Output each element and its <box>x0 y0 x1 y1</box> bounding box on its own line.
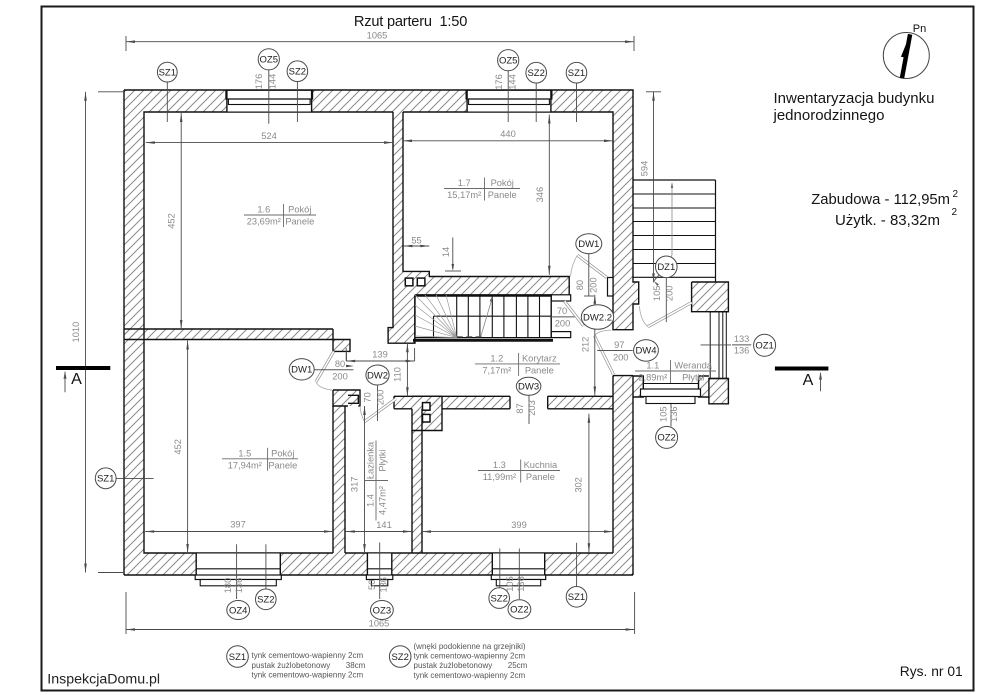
svg-text:Inwentaryzacja budynku: Inwentaryzacja budynku <box>774 90 935 107</box>
legend SZ1 <box>227 646 249 668</box>
svg-text:Panele: Panele <box>285 217 314 227</box>
wall fill: divider 1.4/1.3 <box>412 409 422 553</box>
dim 524 room 1.6 <box>146 142 393 144</box>
svg-text:jednorodzinnego: jednorodzinnego <box>773 107 885 124</box>
wall fill: kitchen chimney block <box>412 396 442 430</box>
svg-text:141: 141 <box>376 520 392 530</box>
legend SZ2 <box>389 646 411 668</box>
dim 141 bathroom <box>346 531 412 533</box>
wall outline: partition 1.6/1.7 and stair band <box>392 112 394 296</box>
section mark A left <box>56 366 110 370</box>
window OZ2 (bottom wall) <box>492 553 544 575</box>
room 1.3 label <box>478 470 560 472</box>
svg-text:DW2: DW2 <box>367 370 388 381</box>
dim 139 corridor nook <box>345 348 347 361</box>
window OZ5 left (top wall) <box>227 90 312 112</box>
label OZ3 bottom with 50/136 <box>379 543 381 600</box>
label DZ1 with 105/200 <box>665 278 667 322</box>
wall outline: block above bathroom <box>333 390 360 406</box>
svg-text:Zabudowa - 112,95m: Zabudowa - 112,95m <box>811 192 950 208</box>
svg-text:139: 139 <box>372 350 388 360</box>
svg-text:A: A <box>71 371 82 388</box>
svg-text:SZ1: SZ1 <box>229 652 246 663</box>
wall outline: divider 1.4/1.3 <box>411 431 413 554</box>
svg-text:440: 440 <box>500 129 516 139</box>
dim 110 corridor <box>406 343 408 396</box>
dim 594 exterior stairs <box>646 91 661 93</box>
svg-text:Pokój: Pokój <box>288 205 311 215</box>
wall fill: step block2 <box>348 395 358 403</box>
wall fill: stair band wall <box>393 271 569 296</box>
svg-text:1.4: 1.4 <box>366 494 376 507</box>
dim 399 kitchen <box>422 531 613 533</box>
flue vents stair wall <box>405 278 413 286</box>
wall fill: top wall <box>124 90 633 112</box>
svg-text:2,89m²: 2,89m² <box>638 373 667 383</box>
label SZ1 bottom-right <box>576 543 578 587</box>
wall outline: veranda right-bottom block <box>709 379 729 404</box>
wall outline: wall 1.6 bottom + DW1 block <box>124 329 333 340</box>
svg-text:Płytki: Płytki <box>378 449 388 471</box>
svg-text:1.1: 1.1 <box>646 361 659 371</box>
svg-text:200: 200 <box>613 352 629 362</box>
svg-text:11,99m²: 11,99m² <box>483 472 516 482</box>
svg-text:OZ4: OZ4 <box>229 605 247 616</box>
wall outline: outer shell <box>124 90 639 330</box>
svg-text:397: 397 <box>230 520 246 530</box>
room 1.7 label <box>444 188 520 190</box>
svg-text:InspekcjaDomu.pl: InspekcjaDomu.pl <box>47 672 160 688</box>
wall fill: divider 1.5/1.4 <box>333 406 345 553</box>
svg-text:SZ1: SZ1 <box>159 67 176 78</box>
wall fill: wall 1.6 bottom <box>124 329 333 340</box>
svg-text:7,17m²: 7,17m² <box>482 365 511 375</box>
svg-text:136: 136 <box>516 576 526 592</box>
svg-text:2: 2 <box>952 189 958 200</box>
svg-text:SZ2: SZ2 <box>257 595 274 606</box>
window OZ4 (bottom wall) <box>196 553 280 575</box>
svg-text:144: 144 <box>508 74 518 90</box>
svg-text:452: 452 <box>173 439 183 455</box>
svg-text:A: A <box>803 372 814 389</box>
svg-text:Panele: Panele <box>268 460 297 470</box>
svg-text:Rzut parteru 1:50: Rzut parteru 1:50 <box>354 14 467 30</box>
svg-text:346: 346 <box>535 187 545 203</box>
svg-text:OZ2: OZ2 <box>657 433 675 444</box>
label DW2.2 with 70/200 <box>550 316 575 318</box>
room 1.1 label <box>635 370 716 372</box>
label DW3 with 87/203 <box>528 395 530 424</box>
window OZ5 right (top wall) <box>467 90 551 112</box>
label SZ2 bottom-middle <box>499 549 501 589</box>
svg-text:DW2.2: DW2.2 <box>583 312 612 323</box>
wall outline: kitchen chimney block <box>412 396 510 430</box>
wall outline: veranda top-right block <box>692 282 729 312</box>
svg-text:OZ3: OZ3 <box>373 605 391 616</box>
svg-text:OZ2: OZ2 <box>510 605 528 616</box>
svg-text:452: 452 <box>167 213 177 229</box>
wall fill: veranda bottom wall left piece <box>633 376 643 397</box>
dim 397 room 1.5 <box>145 531 333 533</box>
door DZ1 entry leaf <box>648 303 692 327</box>
wall fill: corridor bottom wall left <box>394 396 510 409</box>
svg-text:(wnęki podokienne na grzejniki: (wnęki podokienne na grzejniki) <box>414 642 526 651</box>
svg-text:97: 97 <box>614 340 624 350</box>
svg-text:SZ1: SZ1 <box>97 474 114 485</box>
dim 452 room 1.5 <box>187 341 189 554</box>
wall fill: right wall lower <box>613 376 633 553</box>
wall fill: block above bathroom <box>333 390 360 406</box>
svg-text:1.3: 1.3 <box>493 460 506 470</box>
wall fill: partition 1.6/1.7 <box>393 112 403 271</box>
label SZ1 left side <box>116 477 154 479</box>
label SZ2 top-left <box>296 82 298 123</box>
svg-text:SZ1: SZ1 <box>568 68 585 79</box>
room 1.5 label <box>222 458 298 460</box>
wall outline: veranda bottom wall <box>633 376 709 397</box>
label OZ5 top-right with 176/144 <box>507 71 509 122</box>
svg-text:tynk cementowo-wapienny 2cm: tynk cementowo-wapienny 2cm <box>252 651 364 660</box>
door DW1 room1.5 leaf <box>316 351 334 382</box>
svg-text:1.7: 1.7 <box>458 178 471 188</box>
door DW4 veranda leaf <box>595 336 614 375</box>
jamb notches DW2.2 <box>551 295 571 301</box>
svg-text:1.6: 1.6 <box>257 205 270 215</box>
wall fill: veranda top-right block <box>692 282 729 312</box>
svg-text:176: 176 <box>494 74 504 90</box>
svg-text:Pokój: Pokój <box>491 178 514 188</box>
wall fill: step block DW1 <box>333 340 350 352</box>
svg-text:Weranda: Weranda <box>674 361 712 371</box>
dim 440 room 1.7 <box>403 140 613 142</box>
svg-text:1065: 1065 <box>369 619 390 629</box>
svg-text:200: 200 <box>332 372 348 382</box>
svg-text:55: 55 <box>411 236 421 246</box>
svg-text:105: 105 <box>658 406 668 422</box>
dim 302 kitchen <box>588 414 590 553</box>
svg-text:tynk cementowo-wapienny 2cm: tynk cementowo-wapienny 2cm <box>252 671 364 680</box>
svg-text:317: 317 <box>349 477 359 493</box>
label DW4 with 97/200 <box>597 350 633 352</box>
svg-text:Panele: Panele <box>488 190 517 200</box>
svg-text:80: 80 <box>575 280 585 290</box>
window OZ3 (bottom wall) <box>367 553 391 575</box>
label SZ2 bottom-left <box>265 544 267 589</box>
svg-text:DZ1: DZ1 <box>657 262 675 273</box>
svg-text:1.2: 1.2 <box>490 353 503 363</box>
door DW2 bathroom leaf <box>365 399 397 422</box>
svg-text:1065: 1065 <box>367 31 388 41</box>
svg-text:Płytki: Płytki <box>682 373 704 383</box>
svg-text:4,47m²: 4,47m² <box>378 486 388 515</box>
label SZ1 top-left <box>166 82 168 122</box>
label OZ4 bottom with 180/136 <box>236 544 238 599</box>
wall fill: right wall block ext <box>633 282 639 304</box>
wall outline: corridor bottom walls <box>394 396 510 409</box>
dim 317 bathroom <box>364 406 366 553</box>
svg-text:2: 2 <box>951 207 957 218</box>
svg-text:Rys. nr 01: Rys. nr 01 <box>900 664 963 679</box>
label SZ1 top-right <box>576 83 578 122</box>
svg-text:136: 136 <box>378 577 388 593</box>
svg-text:SZ2: SZ2 <box>527 68 544 79</box>
svg-text:105: 105 <box>652 286 662 302</box>
svg-text:tynk cementowo-wapienny 2cm: tynk cementowo-wapienny 2cm <box>414 652 526 661</box>
label OZ1 veranda with 133/136 <box>701 344 752 346</box>
svg-text:15,17m²: 15,17m² <box>447 190 481 200</box>
door DW1 room1.7 leaf <box>577 255 607 277</box>
svg-text:OZ5: OZ5 <box>499 56 517 67</box>
dim 1065 bottom <box>125 592 127 634</box>
label OZ2 bottom with 105/136 <box>518 549 520 600</box>
svg-text:Korytarz: Korytarz <box>522 353 557 363</box>
svg-text:180: 180 <box>223 578 233 594</box>
svg-text:70: 70 <box>557 306 567 316</box>
svg-text:tynk cementowo-wapienny 2cm: tynk cementowo-wapienny 2cm <box>414 671 526 680</box>
svg-text:DW1: DW1 <box>291 365 312 376</box>
wall outline: divider 1.5/1.4 <box>332 406 334 553</box>
dim 55 nook <box>403 245 429 247</box>
svg-text:203: 203 <box>527 400 537 416</box>
label OZ2 veranda with 105/136 <box>670 404 672 427</box>
svg-text:594: 594 <box>640 161 650 177</box>
svg-text:200: 200 <box>664 286 674 302</box>
svg-text:87: 87 <box>515 403 525 413</box>
svg-text:302: 302 <box>573 477 583 493</box>
svg-text:50: 50 <box>367 580 377 590</box>
svg-text:200: 200 <box>589 277 599 293</box>
window OZ1 (veranda right wall) <box>709 311 729 313</box>
svg-text:DW3: DW3 <box>518 382 539 393</box>
svg-text:SZ2: SZ2 <box>490 593 507 604</box>
svg-text:144: 144 <box>268 74 278 90</box>
svg-text:200: 200 <box>375 390 385 406</box>
dim 1065 top <box>125 36 127 51</box>
wall fill: veranda right-bottom block <box>709 379 729 404</box>
wall fill: veranda bottom wall right piece <box>699 376 709 397</box>
svg-text:136: 136 <box>234 578 244 594</box>
svg-text:136: 136 <box>669 406 679 422</box>
room 1.6 label <box>244 214 316 216</box>
window OZ2 veranda (bottom) <box>643 383 698 385</box>
svg-text:136: 136 <box>734 345 750 355</box>
svg-text:OZ1: OZ1 <box>755 341 773 352</box>
svg-text:pustak żużlobetonowy 25c: pustak żużlobetonowy 25cm <box>414 661 528 670</box>
label DW2 bathroom with 70/200 <box>377 385 379 421</box>
dim 14 step <box>452 238 454 270</box>
stairs main <box>415 294 551 296</box>
wall fill: right wall upper <box>613 112 633 330</box>
svg-text:23,69m²: 23,69m² <box>247 217 281 227</box>
svg-text:SZ2: SZ2 <box>289 67 306 78</box>
svg-text:OZ5: OZ5 <box>260 55 278 66</box>
svg-text:Łazienka: Łazienka <box>366 441 376 479</box>
svg-text:1.5: 1.5 <box>238 448 251 458</box>
label SZ2 top-right <box>535 83 537 122</box>
svg-text:Pokój: Pokój <box>271 448 294 458</box>
svg-text:70: 70 <box>362 392 372 402</box>
svg-text:1010: 1010 <box>71 322 81 343</box>
svg-text:17,94m²: 17,94m² <box>228 460 262 470</box>
svg-text:14: 14 <box>441 247 451 257</box>
svg-text:Kuchnia: Kuchnia <box>524 460 558 470</box>
compass Pn <box>883 33 929 79</box>
svg-text:DW1: DW1 <box>578 239 599 250</box>
label DW1 room1.7 with 80/200 <box>588 254 590 296</box>
svg-text:Panele: Panele <box>525 365 554 375</box>
svg-text:Panele: Panele <box>526 472 555 482</box>
section mark A right <box>775 367 829 371</box>
svg-text:SZ2: SZ2 <box>391 652 408 663</box>
room 1.4 label rotated <box>365 441 388 521</box>
svg-text:pustak żużlobetonowy 38c: pustak żużlobetonowy 38cm <box>252 661 366 670</box>
wall fill: left wall <box>124 112 144 575</box>
svg-text:200: 200 <box>555 319 571 329</box>
label OZ5 top-left with 176/144 <box>268 70 270 124</box>
dim 1010 left <box>98 91 124 93</box>
svg-text:DW4: DW4 <box>635 346 656 357</box>
svg-text:Użytk. - 83,32m: Użytk. - 83,32m <box>835 212 940 229</box>
door DW2.2 leaf <box>565 301 584 326</box>
svg-text:212: 212 <box>580 337 590 353</box>
dim 212 landing <box>594 295 596 396</box>
room 1.2 label <box>475 363 560 365</box>
svg-text:133: 133 <box>734 334 750 344</box>
svg-text:524: 524 <box>261 131 277 141</box>
jamb notch DW1-1.7 <box>608 278 614 297</box>
wall fill: stairwell left wall <box>388 296 415 343</box>
svg-text:176: 176 <box>254 74 264 90</box>
dim 346 room 1.7 <box>548 115 550 275</box>
svg-text:110: 110 <box>392 367 402 382</box>
svg-text:Pn: Pn <box>913 23 926 35</box>
stairs exterior <box>633 179 716 181</box>
wall fill: corridor bottom wall right <box>548 396 613 409</box>
svg-text:105: 105 <box>505 576 515 592</box>
svg-text:399: 399 <box>511 520 527 530</box>
label DW1 room1.5 with 80/200 <box>314 369 353 371</box>
wall fill: bottom wall <box>144 553 633 575</box>
svg-text:80: 80 <box>335 359 345 369</box>
flue vents kitchen <box>423 403 431 411</box>
wall outline: stairwell left wall <box>388 296 415 343</box>
dim 452 room 1.6 <box>180 113 182 329</box>
svg-text:SZ1: SZ1 <box>568 592 585 603</box>
